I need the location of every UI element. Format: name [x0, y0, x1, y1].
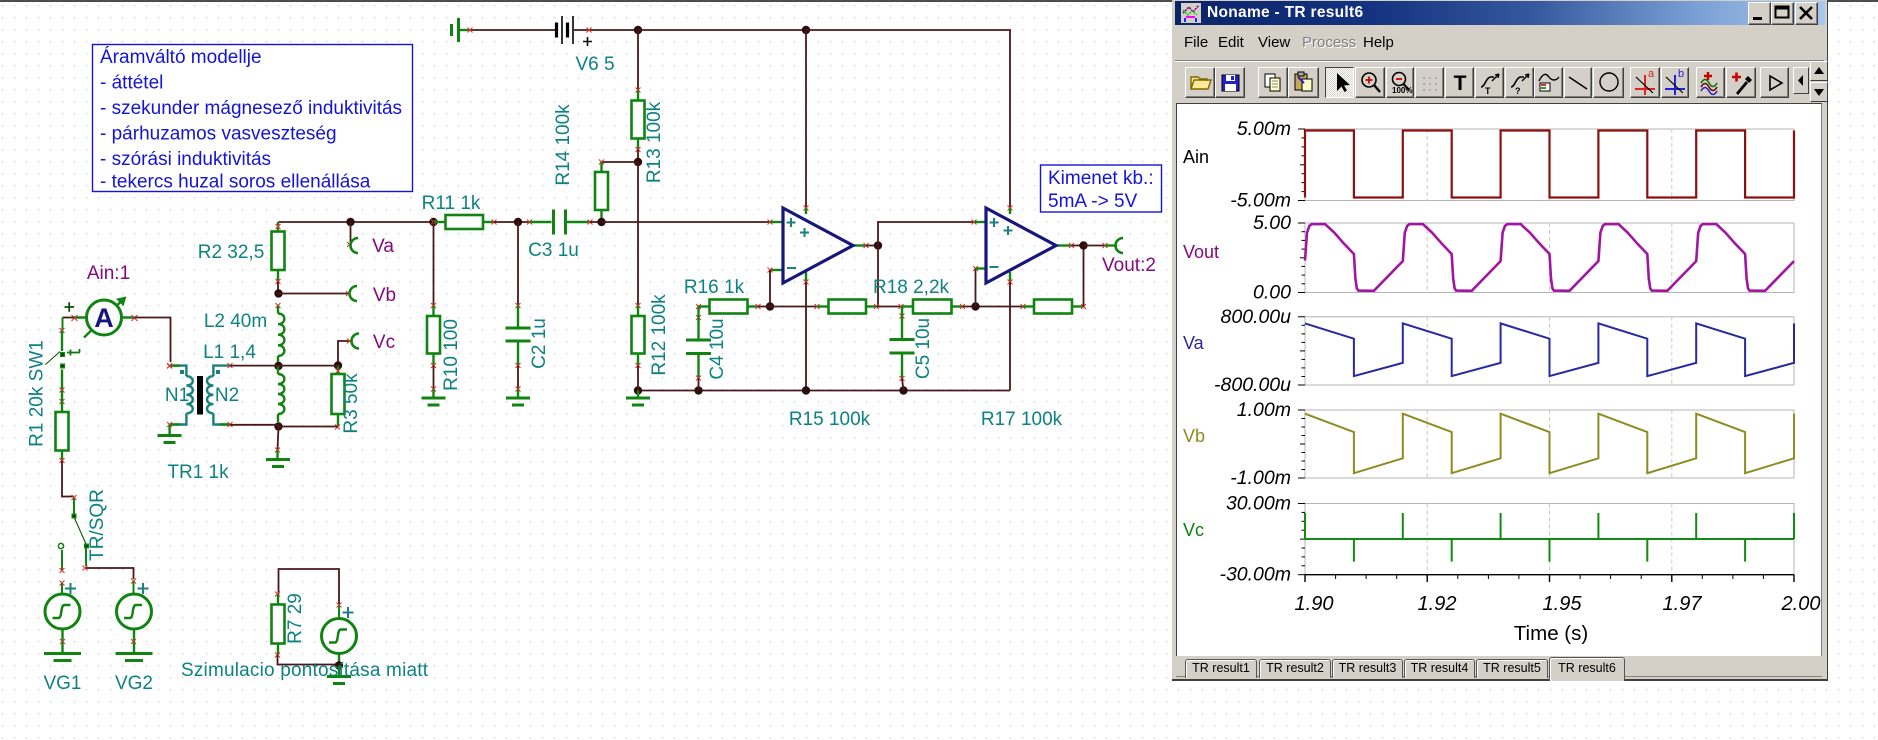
svg-text:b: b [1678, 69, 1684, 80]
label Vout:2 [1102, 255, 1156, 276]
resistor R16 [696, 300, 770, 314]
node junction rail C4 [694, 386, 702, 394]
svg-text:-30.00m: -30.00m [1219, 564, 1291, 586]
label TR/SQR [87, 489, 108, 561]
wire node to R14 [599, 160, 638, 165]
node Va pin [351, 238, 358, 253]
label R2 32,5 [198, 242, 265, 263]
plot panel [1176, 103, 1822, 656]
node Vc pin [352, 334, 360, 349]
svg-text:Ain:1: Ain:1 [87, 263, 130, 284]
wire R18 to R17 [963, 304, 1026, 309]
wire R1 to switch TR/SQR [62, 461, 77, 501]
label R17 100k [981, 409, 1063, 430]
svg-text:a: a [1648, 69, 1655, 80]
label R18 2,2k [873, 277, 950, 298]
wire ammeter left to switch [60, 318, 75, 352]
resistor R1 [56, 412, 69, 463]
wire main rail R2 to R10 [279, 221, 434, 223]
capacitor C2 [506, 306, 531, 398]
svg-text:Vc: Vc [1183, 520, 1204, 540]
ground GND2 [506, 398, 530, 405]
svg-text:C3 1u: C3 1u [528, 240, 579, 261]
resistor R11 [434, 215, 497, 229]
svg-text:- áttétel: - áttétel [100, 73, 163, 94]
svg-text:- tekercs huzal soros ellenáll: - tekercs huzal soros ellenállása [100, 172, 371, 193]
wire node to R15 [770, 304, 820, 309]
wire L1 to ground [275, 427, 280, 459]
svg-text:Vc: Vc [373, 332, 395, 353]
label Vb [373, 285, 396, 306]
ground GND-L1 [266, 460, 290, 467]
label R12 100k [649, 294, 670, 376]
wire U1 output [864, 243, 879, 248]
node Vout:2 pin [1116, 238, 1123, 253]
label L2 40m [204, 311, 267, 332]
label C3 1u [528, 240, 579, 261]
label Vc [373, 332, 395, 353]
svg-text:R18 2,2k: R18 2,2k [873, 277, 950, 298]
wire R7 loop bottom [278, 655, 340, 665]
node junction Vout [1079, 241, 1087, 249]
wire U2 -input down [973, 266, 978, 307]
wire U2 supply down to ground rail [1009, 282, 1011, 391]
svg-text:-1.00m: -1.00m [1230, 467, 1291, 489]
inductor L2 [276, 303, 285, 362]
svg-text:Va: Va [1183, 333, 1205, 353]
node junction C2 top [514, 218, 522, 226]
svg-text:R2 32,5: R2 32,5 [198, 242, 265, 263]
node junction U2 -input [971, 302, 979, 310]
wire R2 to Vb node [277, 282, 279, 294]
ground GND-VG2 [116, 654, 153, 661]
svg-text:30.00m: 30.00m [1226, 493, 1291, 515]
wire U1 out down to feedback row [877, 246, 879, 307]
wire throw to VG2 [83, 548, 137, 584]
svg-text:Vb: Vb [1183, 426, 1205, 446]
ground GND6 (battery negative, rotated left) [452, 18, 470, 42]
label R14 100k [553, 104, 574, 186]
resistor R13 [632, 90, 645, 152]
svg-text:Szimulacio pontosítása miatt: Szimulacio pontosítása miatt [181, 660, 429, 681]
svg-text:-5.00m: -5.00m [1230, 190, 1291, 212]
svg-text:Vout:2: Vout:2 [1102, 255, 1156, 276]
wire rail to op-amp U1 +input [602, 220, 773, 225]
wire C2 top [516, 222, 521, 308]
svg-text:N1: N1 [165, 385, 189, 406]
svg-text:TR/SQR: TR/SQR [87, 489, 108, 561]
wire node2 down to op-amp U1 supply [804, 30, 809, 211]
wire R13 to node [637, 150, 639, 163]
ground GND-VG1 [44, 654, 81, 661]
label R15 100k [789, 409, 871, 430]
svg-text:Vout: Vout [1183, 242, 1219, 262]
node junction U1 output [874, 241, 882, 249]
node junction rail C5 [899, 386, 907, 394]
label L1 1,4 [203, 342, 256, 363]
label Szimulacio pontositasa miatt [181, 660, 429, 681]
wire N2 bottom to R3 bottom [230, 425, 338, 427]
svg-text:- szekunder mágnesező induktiv: - szekunder mágnesező induktivitás [100, 98, 402, 119]
svg-text:C4 10u: C4 10u [707, 318, 728, 379]
wire R7 loop top [275, 569, 342, 608]
wire Vb tap [279, 291, 352, 296]
svg-text:1.90: 1.90 [1295, 593, 1334, 615]
label V6 5 [575, 54, 614, 75]
op-amp U1 [770, 208, 866, 285]
window toolbar [1175, 60, 1824, 103]
capacitor C5 [890, 307, 915, 391]
svg-text:800.00u: 800.00u [1221, 306, 1292, 328]
ground GND-VS7 [327, 666, 351, 684]
wire ground to battery [468, 28, 557, 33]
resistor R10 [427, 306, 440, 398]
label VG1 [43, 673, 81, 694]
svg-text:L2 40m: L2 40m [204, 311, 267, 332]
capacitor C4 [686, 307, 711, 391]
resistor R17 [1023, 300, 1086, 314]
source VS7 [322, 605, 357, 667]
label N1 [165, 385, 189, 406]
label Ain:1 [87, 263, 130, 284]
wire R11 to C3 [494, 221, 530, 223]
svg-text:L1 1,4: L1 1,4 [203, 342, 256, 363]
op-amp U2 [974, 208, 1072, 285]
svg-text:Kimenet kb.:: Kimenet kb.: [1048, 168, 1154, 189]
svg-text:- párhuzamos vasveszteség: - párhuzamos vasveszteség [100, 124, 337, 145]
label R13 100k [644, 101, 665, 183]
wire switch to R1 [60, 370, 65, 413]
svg-text:-800.00u: -800.00u [1214, 374, 1291, 396]
label R11 1k [422, 193, 481, 214]
svg-text:Va: Va [372, 236, 394, 257]
svg-text:R12 100k: R12 100k [649, 294, 670, 376]
node junction rail U1 [802, 386, 810, 394]
label Va [372, 236, 394, 257]
window titlebar [1175, 1, 1825, 25]
svg-text:R1 20k SW1: R1 20k SW1 [27, 340, 48, 447]
svg-text:?: ? [1515, 86, 1521, 96]
node junction R14 bottom [597, 218, 605, 226]
node junction VS7 ground [335, 661, 343, 669]
node junction rail R12 [634, 386, 642, 394]
wire ground rail [638, 390, 1010, 392]
svg-text:R17 100k: R17 100k [981, 409, 1063, 430]
svg-text:1.95: 1.95 [1543, 593, 1583, 615]
wire Va tap [347, 222, 352, 247]
svg-text:100%: 100% [1392, 86, 1412, 95]
tab bar [1176, 656, 1822, 679]
wire U1 supply down to ground rail [805, 282, 807, 391]
svg-text:T: T [1485, 86, 1491, 96]
window menubar [1175, 27, 1824, 57]
wire N2 top to L1 node [230, 365, 338, 367]
svg-text:VG2: VG2 [115, 673, 153, 694]
wire ammeter to transformer N1 [135, 318, 173, 369]
svg-text:VG1: VG1 [43, 673, 81, 694]
svg-text:1.92: 1.92 [1418, 593, 1457, 615]
label VG2 [115, 673, 153, 694]
resistor R2 [272, 222, 285, 284]
resistor R7 [272, 594, 285, 658]
resistor R12 [632, 303, 645, 391]
svg-text:0.00: 0.00 [1253, 282, 1291, 304]
wire U1 -input down [768, 268, 773, 307]
svg-text:- szórási induktivitás: - szórási induktivitás [100, 149, 271, 170]
node junction R3 top [334, 361, 342, 369]
node junction L2/L1/N2top [274, 362, 282, 370]
svg-text:5.00m: 5.00m [1237, 118, 1291, 140]
resistor R14 [595, 162, 608, 221]
wire V+ down to R13 [636, 30, 641, 93]
svg-text:R14 100k: R14 100k [553, 104, 574, 186]
label R10 100 [441, 319, 462, 391]
wire battery to node [574, 28, 638, 33]
node junction R16/R15 [766, 302, 774, 310]
node Vb pin [350, 286, 358, 301]
node junction top1 (x638) [634, 26, 642, 34]
label R16 1k [684, 277, 745, 298]
wire rail down to R10 [431, 222, 436, 308]
label C4 10u [707, 318, 728, 379]
svg-text:C2 1u: C2 1u [529, 318, 550, 369]
label R3 50k [341, 373, 362, 434]
svg-text:Ain: Ain [1183, 147, 1209, 167]
inductor L1 [278, 366, 284, 422]
svg-text:R15 100k: R15 100k [789, 409, 871, 430]
resistor R18 [901, 300, 965, 314]
svg-text:T: T [1453, 72, 1466, 95]
wire N1 to ground [168, 425, 170, 437]
capacitor C3 [527, 210, 593, 235]
ground GND10 [422, 398, 446, 405]
ammeter A (Ain) [65, 297, 138, 338]
resistor R3 [332, 366, 345, 430]
wire top rail to op-amp U2 supply [806, 30, 1013, 211]
source VG2 [117, 581, 152, 653]
label C2 1u [529, 318, 550, 369]
svg-text:R3 50k: R3 50k [341, 373, 362, 434]
svg-text:R10 100: R10 100 [441, 319, 462, 391]
svg-text:1.00m: 1.00m [1237, 399, 1291, 421]
annotation box Aramvalto modellje [93, 45, 413, 193]
annotation box Kimenet [1041, 165, 1162, 212]
source VG1 [45, 583, 80, 653]
svg-text:TR1 1k: TR1 1k [167, 462, 229, 483]
wire top rail to node2 [638, 29, 806, 31]
node junction Va tap [346, 218, 354, 226]
resistor R15 [817, 300, 879, 314]
svg-text:A: A [94, 303, 114, 333]
wire R13 node down to R12 [637, 162, 639, 306]
svg-text:R16 1k: R16 1k [684, 277, 745, 298]
svg-text:Time (s): Time (s) [1514, 622, 1588, 645]
wire throw to VG1 [60, 550, 65, 586]
wire U2 output [1069, 243, 1084, 248]
switch SW1 [46, 349, 81, 369]
label C5 10u [913, 318, 934, 379]
svg-text:V6 5: V6 5 [575, 54, 614, 75]
svg-text:R11 1k: R11 1k [422, 193, 481, 214]
node junction R13/R14 [634, 158, 642, 166]
svg-text:Vb: Vb [373, 285, 396, 306]
wire R15 to R18 [877, 304, 904, 309]
svg-text:2.00: 2.00 [1781, 593, 1821, 615]
ground GND12 (rail) [626, 391, 650, 406]
label R7 29 [285, 593, 306, 644]
svg-text:Áramváltó modellje: Áramváltó modellje [100, 47, 262, 68]
svg-text:5.00: 5.00 [1253, 212, 1291, 234]
battery V6 [557, 16, 593, 46]
wire to Vout pin [1084, 243, 1118, 248]
transformer TR1 [167, 363, 232, 427]
wire R17 up to output [1083, 246, 1085, 307]
svg-text:R7 29: R7 29 [285, 593, 306, 644]
node junction R10 top [429, 218, 437, 226]
svg-text:N2: N2 [215, 385, 239, 406]
ground GND-TR [158, 436, 182, 443]
label R1 20k SW1 [27, 340, 48, 447]
node junction L1 bottom [274, 422, 282, 430]
node junction top2 (x806) [802, 26, 810, 34]
label TR1 1k [167, 462, 229, 483]
label N2 [215, 385, 239, 406]
switch SW-TR/SQR [58, 498, 89, 549]
svg-text:5mA -> 5V: 5mA -> 5V [1048, 191, 1138, 212]
wire C3 to R14 node [590, 221, 602, 223]
node junction Vb [274, 289, 282, 297]
wire Vc tap [338, 339, 352, 366]
svg-text:C5 10u: C5 10u [913, 318, 934, 379]
svg-text:R13 100k: R13 100k [644, 101, 665, 183]
svg-text:1.97: 1.97 [1663, 593, 1703, 615]
wire U1 out up to U2 +input [878, 220, 977, 246]
